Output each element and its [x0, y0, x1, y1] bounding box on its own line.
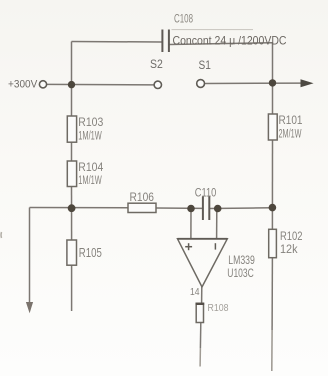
- svg-text:R102: R102: [280, 231, 303, 243]
- svg-text:12k: 12k: [280, 244, 298, 256]
- svg-text:S2: S2: [150, 59, 163, 71]
- svg-text:C108: C108: [174, 13, 193, 25]
- svg-text:R104: R104: [78, 162, 104, 174]
- svg-text:1M/1W: 1M/1W: [78, 175, 102, 187]
- svg-text:1M/1W: 1M/1W: [78, 130, 102, 142]
- svg-text:14: 14: [190, 286, 200, 298]
- svg-text:S1: S1: [199, 60, 211, 72]
- svg-text:R108: R108: [208, 302, 229, 314]
- svg-text:U103C: U103C: [227, 266, 254, 280]
- svg-text:R106: R106: [130, 192, 155, 204]
- svg-text:R103: R103: [78, 117, 103, 129]
- svg-text:2M/1W: 2M/1W: [279, 128, 302, 140]
- svg-text:LM339: LM339: [228, 253, 255, 267]
- svg-text:+300V: +300V: [8, 78, 38, 90]
- svg-text:R105: R105: [79, 246, 102, 260]
- svg-text:C110: C110: [195, 187, 217, 199]
- svg-text:Concont 24 μ /1200VDC: Concont 24 μ /1200VDC: [173, 34, 287, 48]
- svg-text:R101: R101: [279, 115, 303, 127]
